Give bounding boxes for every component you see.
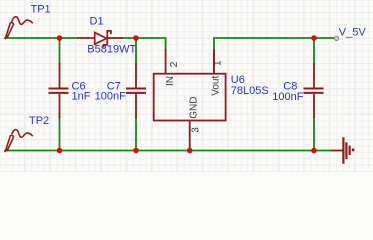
svg-text:78L05S: 78L05S [231, 85, 269, 97]
svg-text:B5819WT: B5819WT [87, 44, 136, 56]
svg-text:GND: GND [188, 97, 199, 119]
svg-text:Vout: Vout [211, 76, 222, 96]
svg-text:IN: IN [165, 76, 176, 86]
svg-text:2: 2 [169, 61, 180, 67]
svg-text:TP1: TP1 [31, 4, 51, 16]
svg-text:1: 1 [213, 60, 224, 66]
svg-text:100nF: 100nF [95, 91, 126, 103]
svg-text:3: 3 [190, 127, 201, 133]
svg-text:100nF: 100nF [272, 91, 303, 103]
svg-text:D1: D1 [90, 16, 104, 28]
svg-text:TP2: TP2 [29, 115, 49, 127]
svg-text:1nF: 1nF [72, 91, 91, 103]
svg-text:V_5V: V_5V [339, 26, 367, 38]
